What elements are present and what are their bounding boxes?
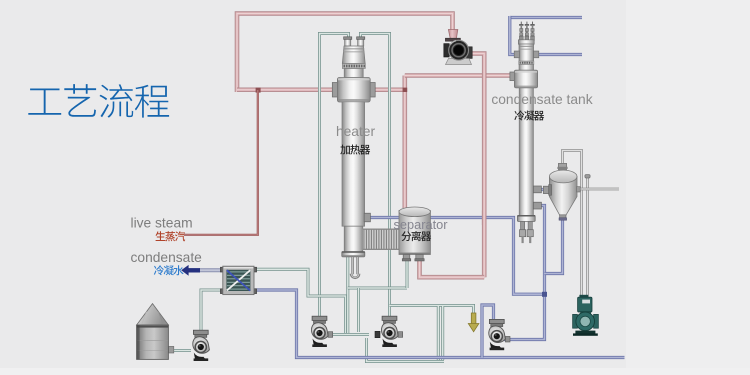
pipe: hx bottom-right long run (254, 290, 625, 358)
condenser column (510, 22, 542, 244)
pipe: separator bottom to riser (420, 253, 485, 277)
pipe: separator riser vertical (402, 76, 407, 209)
pipe: hx right to pump junction (254, 269, 346, 333)
pipe: heater top-left vapor to pump1 (320, 34, 349, 318)
pipe: hx bottom-left to pump4 (201, 290, 223, 331)
pipe: condenser vent top (510, 16, 582, 19)
green metering pump (573, 295, 599, 336)
drain arrow (468, 313, 479, 332)
cap: second riser top (585, 175, 590, 178)
svg-text:separator: separator (393, 217, 448, 232)
pipe: pump1 outlet to pump2 inlet (328, 333, 369, 336)
pipe: drain loop vertical b (441, 306, 444, 360)
pipe: bottom drain run (367, 338, 445, 362)
pipe: heater bottom drop (346, 255, 349, 333)
pipe: condenser to vessel (534, 188, 550, 191)
pump P2 (375, 316, 403, 347)
label 加热器 (340, 145, 370, 155)
feed tank (137, 304, 174, 360)
pipe: vessel right stub (577, 188, 619, 191)
svg-text:condensate tank: condensate tank (491, 92, 592, 107)
label 生蒸汽 (156, 231, 186, 241)
pipe: vessel drain (545, 221, 563, 274)
pipe: tank outlet to pump4 (173, 349, 191, 352)
heat exchanger (220, 266, 256, 294)
steam fan (444, 30, 472, 65)
pipe: vessel top loop to green pump (563, 151, 582, 299)
pipe: separator left leg (406, 252, 409, 288)
pipe: heater right nozzle to separator riser (370, 87, 405, 92)
pipe: condensate arrow feed (199, 268, 224, 272)
receiver vessel (543, 163, 580, 220)
pipe: condenser vent lower (538, 53, 583, 56)
label 冷凝水 (154, 265, 184, 275)
pipe: pump outlet down (467, 54, 484, 278)
background right panel (626, 0, 750, 375)
pipe: riser to pump3 inlet (482, 305, 494, 358)
pipe: steam riser over vacuum line (482, 211, 487, 226)
label 冷凝器 (514, 111, 544, 121)
junction: condenser riser tee (542, 292, 547, 297)
pipe: live steam label line (184, 90, 258, 235)
pipe: steam top loop (237, 14, 453, 93)
svg-text:live steam: live steam (131, 216, 193, 231)
title 工艺流程 (28, 84, 169, 118)
pipe: condenser vent down (510, 16, 515, 55)
pipe: condenser bottom riser (504, 206, 545, 340)
pump P4 (tank pump) (193, 330, 210, 361)
pipe: separator drain header (348, 287, 407, 290)
svg-text:heater: heater (336, 124, 376, 139)
heater column (332, 37, 399, 257)
pipe: drain header drop (357, 288, 360, 332)
pipe: vacuum line heater to condenser drop (364, 218, 545, 295)
svg-text:condensate: condensate (131, 250, 203, 265)
pump P3 (489, 319, 510, 350)
pipe: pump2 top tee to drain arrow (390, 306, 474, 316)
junction dot steam (256, 88, 261, 93)
label 分离器 (401, 231, 431, 241)
pipe: steam to heater left nozzle (237, 87, 338, 92)
pipe: heater top-right vapor to pump2 (361, 34, 390, 318)
separator drum (399, 207, 430, 261)
pipe: drain loop vertical a (437, 306, 440, 360)
background bottom strip (0, 368, 750, 375)
pipe: steam header to condenser (405, 73, 511, 78)
pump P1 (311, 316, 332, 347)
pipe: green pump second riser (586, 178, 589, 298)
condensate arrow (181, 265, 200, 276)
heater bottom u-tube (351, 257, 354, 274)
